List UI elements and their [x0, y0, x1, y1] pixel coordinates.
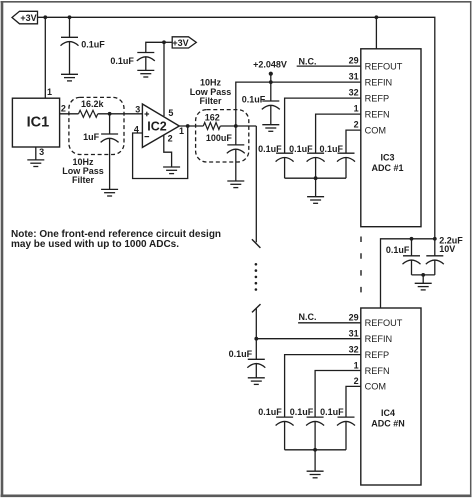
svg-text:0.1uF: 0.1uF [242, 94, 266, 104]
svg-text:REFP: REFP [365, 350, 390, 360]
svg-text:IC1: IC1 [27, 114, 50, 130]
svg-text:REFN: REFN [365, 366, 390, 376]
svg-text:0.1uF: 0.1uF [320, 407, 344, 417]
svg-text:31: 31 [349, 329, 359, 339]
svg-text:REFN: REFN [365, 109, 390, 119]
svg-text:0.1uF: 0.1uF [258, 144, 282, 154]
svg-text:REFOUT: REFOUT [365, 61, 403, 71]
svg-text:3: 3 [39, 147, 44, 157]
svg-text:29: 29 [349, 56, 359, 66]
svg-text:5: 5 [168, 108, 173, 118]
svg-text:COM: COM [365, 382, 386, 392]
svg-text:may be used with up to 1000 AD: may be used with up to 1000 ADCs. [11, 239, 179, 250]
svg-text:162: 162 [205, 112, 220, 122]
svg-text:IC2: IC2 [147, 119, 167, 133]
svg-text:0.1uF: 0.1uF [319, 144, 343, 154]
svg-text:REFIN: REFIN [365, 334, 393, 344]
svg-text:Filter: Filter [72, 175, 95, 185]
svg-text:0.1uF: 0.1uF [110, 56, 134, 66]
svg-text:2: 2 [354, 376, 359, 386]
svg-text:1uF: 1uF [83, 132, 100, 142]
svg-text:1: 1 [179, 126, 184, 136]
svg-text:Filter: Filter [199, 96, 222, 106]
svg-text:ADC #1: ADC #1 [371, 163, 403, 173]
svg-text:IC3: IC3 [380, 153, 394, 163]
svg-text:0.1uF: 0.1uF [289, 144, 313, 154]
svg-text:IC4: IC4 [381, 408, 395, 418]
svg-text:3: 3 [135, 105, 140, 115]
svg-text:2: 2 [61, 103, 66, 113]
svg-text:0.1uF: 0.1uF [81, 39, 105, 49]
svg-text:REFIN: REFIN [365, 77, 393, 87]
svg-text:0.1uF: 0.1uF [386, 245, 410, 255]
svg-text:COM: COM [365, 125, 386, 135]
svg-text:REFP: REFP [365, 93, 390, 103]
svg-text:100uF: 100uF [206, 133, 233, 143]
svg-text:2: 2 [168, 134, 173, 144]
svg-text:32: 32 [349, 344, 359, 354]
svg-text:ADC #N: ADC #N [371, 419, 405, 429]
svg-text:32: 32 [349, 88, 359, 98]
svg-text:REFOUT: REFOUT [365, 318, 403, 328]
svg-text:0.1uF: 0.1uF [258, 407, 282, 417]
svg-text:2: 2 [354, 120, 359, 130]
svg-text:N.C.: N.C. [299, 312, 317, 322]
svg-text:1: 1 [354, 104, 359, 114]
svg-text:1: 1 [47, 87, 52, 97]
svg-text:29: 29 [349, 313, 359, 323]
svg-text:+2.048V: +2.048V [253, 59, 287, 69]
svg-text:N.C.: N.C. [299, 56, 317, 66]
svg-text:16.2k: 16.2k [81, 99, 105, 109]
svg-text:31: 31 [349, 72, 359, 82]
svg-text:0.1uF: 0.1uF [229, 349, 253, 359]
svg-text:1: 1 [354, 360, 359, 370]
svg-text:0.1uF: 0.1uF [290, 407, 314, 417]
svg-text:+3V: +3V [172, 38, 188, 48]
svg-text:10V: 10V [439, 244, 455, 254]
svg-text:+3V: +3V [20, 13, 36, 23]
